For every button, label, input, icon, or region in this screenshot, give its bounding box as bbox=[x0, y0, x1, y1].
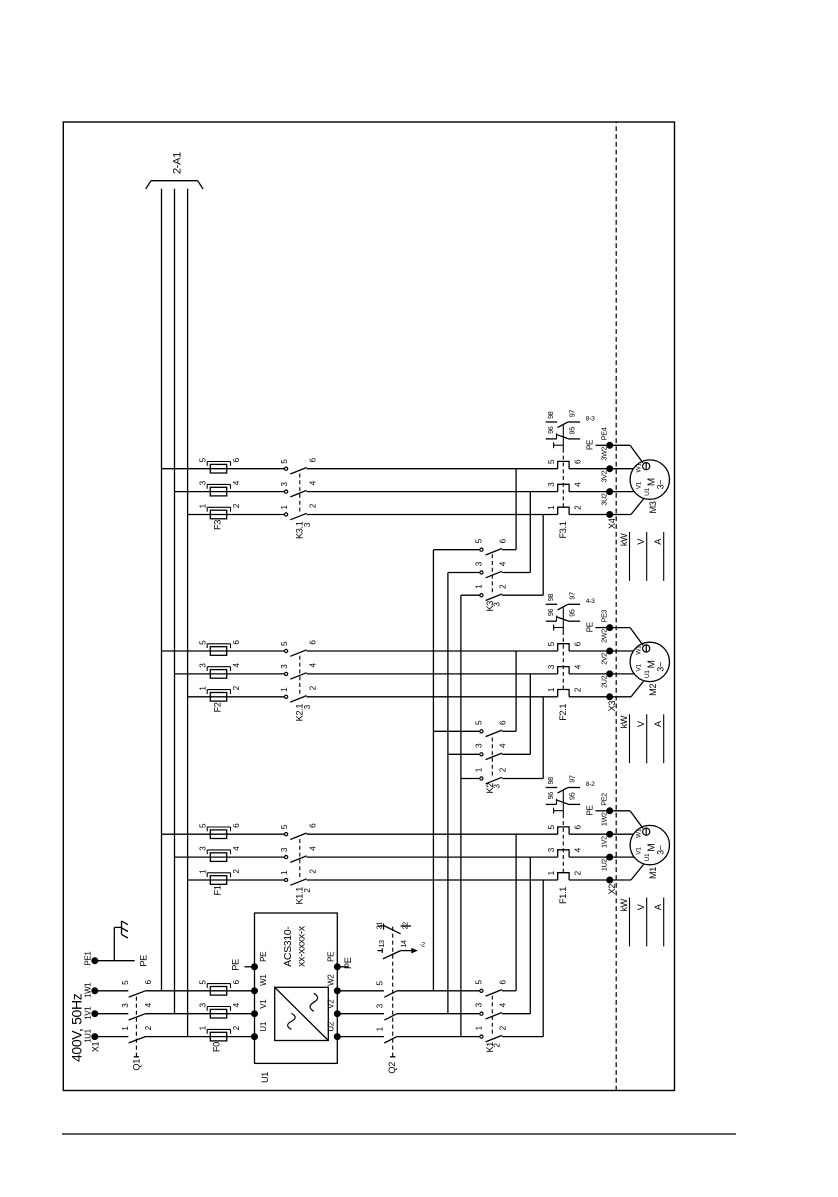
svg-text:-2: -2 bbox=[420, 942, 426, 949]
svg-text:5: 5 bbox=[475, 538, 484, 543]
svg-text:4: 4 bbox=[309, 480, 318, 485]
svg-text:6: 6 bbox=[498, 720, 507, 725]
svg-text:3~: 3~ bbox=[656, 662, 666, 672]
fuse F1 bbox=[210, 876, 226, 885]
drive input terminals bbox=[252, 1034, 258, 1040]
svg-text:97: 97 bbox=[568, 775, 577, 783]
svg-text:6: 6 bbox=[574, 825, 583, 830]
svg-text:3: 3 bbox=[475, 743, 484, 748]
svg-text:13: 13 bbox=[377, 940, 386, 948]
svg-text:22: 22 bbox=[400, 922, 409, 930]
nameplate M1 bbox=[629, 898, 631, 947]
svg-text:1: 1 bbox=[475, 1025, 484, 1030]
footer separator line bbox=[62, 1133, 736, 1135]
motor M1 PE terminal bbox=[643, 828, 650, 835]
svg-text:2: 2 bbox=[574, 505, 583, 510]
svg-text:1: 1 bbox=[475, 584, 484, 589]
drive output PE stub bbox=[337, 966, 348, 968]
svg-text:W1: W1 bbox=[635, 828, 642, 838]
svg-text:98: 98 bbox=[546, 594, 555, 602]
svg-text:5: 5 bbox=[376, 981, 385, 986]
distribution wire V bbox=[447, 573, 449, 1014]
svg-text:PE: PE bbox=[343, 957, 353, 969]
svg-text:4: 4 bbox=[144, 1002, 153, 1007]
svg-text:4: 4 bbox=[232, 1002, 241, 1007]
svg-text:PE2: PE2 bbox=[599, 793, 608, 806]
svg-text:M1: M1 bbox=[648, 867, 658, 879]
svg-text:2: 2 bbox=[574, 687, 583, 692]
svg-text:3: 3 bbox=[547, 482, 556, 487]
svg-text:3: 3 bbox=[199, 663, 208, 668]
F3.1 aux contact 95-96 bbox=[546, 438, 557, 440]
svg-text:6: 6 bbox=[309, 457, 318, 462]
svg-text:1V1: 1V1 bbox=[84, 1006, 93, 1020]
converter symbol bbox=[275, 987, 329, 1040]
motor M2 bbox=[630, 642, 669, 681]
F2.1 aux contact 97-98 bbox=[546, 603, 558, 605]
svg-text:2W2: 2W2 bbox=[599, 629, 608, 643]
svg-text:2: 2 bbox=[309, 503, 318, 508]
svg-text:4: 4 bbox=[498, 561, 507, 566]
PE1 earth wire bbox=[98, 960, 135, 962]
svg-text:V: V bbox=[636, 538, 646, 545]
svg-text:2: 2 bbox=[309, 685, 318, 690]
svg-text:Q2: Q2 bbox=[387, 1062, 397, 1074]
svg-text:8-3: 8-3 bbox=[586, 416, 595, 423]
svg-text:5: 5 bbox=[280, 824, 289, 829]
svg-text:3: 3 bbox=[199, 480, 208, 485]
svg-text:97: 97 bbox=[568, 410, 577, 418]
svg-text:4: 4 bbox=[498, 1002, 507, 1007]
svg-text:3: 3 bbox=[280, 482, 289, 487]
overload relay F2.1 bbox=[558, 690, 569, 697]
svg-text:6: 6 bbox=[574, 641, 583, 646]
svg-text:1W1: 1W1 bbox=[84, 982, 93, 998]
wire busbar taps to branch M1 bbox=[162, 833, 285, 835]
svg-text:1U2: 1U2 bbox=[599, 859, 608, 871]
drive input PE stub bbox=[245, 966, 255, 968]
svg-text:2: 2 bbox=[232, 1025, 241, 1030]
svg-text:98: 98 bbox=[546, 411, 555, 419]
svg-text:14: 14 bbox=[399, 940, 408, 948]
svg-text:kW: kW bbox=[619, 898, 629, 911]
svg-text:V: V bbox=[636, 903, 646, 910]
svg-text:PE: PE bbox=[586, 806, 595, 816]
svg-text:PE3: PE3 bbox=[599, 610, 608, 623]
svg-text:F2: F2 bbox=[213, 702, 223, 712]
svg-text:1: 1 bbox=[280, 687, 289, 692]
svg-text:1: 1 bbox=[547, 870, 556, 875]
svg-text:xx-xxxx-x: xx-xxxx-x bbox=[296, 925, 308, 967]
svg-text:V1: V1 bbox=[259, 999, 268, 1009]
drive U1 ACS310 box bbox=[255, 913, 338, 1063]
svg-text:PE: PE bbox=[586, 622, 595, 632]
svg-text:1: 1 bbox=[199, 869, 208, 874]
svg-text:3: 3 bbox=[280, 664, 289, 669]
svg-text:4-3: 4-3 bbox=[586, 598, 595, 605]
svg-text:1U1: 1U1 bbox=[84, 1028, 93, 1043]
ground symbol bbox=[113, 927, 115, 960]
svg-text:5: 5 bbox=[547, 459, 556, 464]
svg-text:4: 4 bbox=[309, 663, 318, 668]
svg-text:W1: W1 bbox=[635, 463, 642, 473]
svg-text:M3: M3 bbox=[648, 501, 658, 513]
svg-text:PE4: PE4 bbox=[599, 427, 608, 440]
svg-text:V1: V1 bbox=[636, 664, 643, 672]
svg-text:3V2: 3V2 bbox=[599, 470, 608, 482]
svg-text:U1: U1 bbox=[644, 487, 651, 495]
F3.1 actuator bbox=[562, 453, 564, 508]
F1.1 aux contact 97-98 bbox=[546, 787, 558, 789]
svg-text:ACS310-: ACS310- bbox=[282, 926, 294, 967]
svg-text:98: 98 bbox=[546, 777, 555, 785]
arrow to sheet 2 bbox=[401, 950, 412, 952]
svg-text:5: 5 bbox=[199, 458, 208, 463]
drive output terminals bbox=[334, 1034, 340, 1040]
breaker Q1 bbox=[129, 1037, 146, 1043]
wire drop to K2 bbox=[461, 778, 480, 780]
wire drive output to Q2 bbox=[337, 1036, 384, 1038]
wire Q1 to drive input bbox=[145, 1036, 254, 1038]
svg-text:6: 6 bbox=[309, 640, 318, 645]
F2.1 actuator bbox=[562, 635, 564, 690]
svg-text:2: 2 bbox=[498, 1025, 507, 1030]
svg-text:6: 6 bbox=[574, 459, 583, 464]
svg-text:3: 3 bbox=[280, 847, 289, 852]
svg-text:3: 3 bbox=[547, 847, 556, 852]
wire K3.1 to overload bbox=[307, 514, 558, 516]
drawing frame border bbox=[63, 122, 674, 1091]
svg-text:3: 3 bbox=[475, 1002, 484, 1007]
PE wire to motor M3 bbox=[612, 444, 630, 446]
svg-text:5: 5 bbox=[199, 980, 208, 985]
svg-text:3: 3 bbox=[376, 1003, 385, 1008]
svg-text:6: 6 bbox=[232, 640, 241, 645]
svg-text:4: 4 bbox=[232, 480, 241, 485]
terminal X4 bbox=[607, 512, 613, 518]
wire busbar taps to branch M2 bbox=[162, 650, 285, 652]
svg-text:X2: X2 bbox=[607, 884, 617, 895]
svg-text:21: 21 bbox=[375, 922, 384, 930]
busbar L3 wire bbox=[187, 189, 189, 1037]
svg-text:2U2: 2U2 bbox=[599, 675, 608, 687]
contactor K3 bbox=[480, 594, 483, 597]
svg-text:400V, 50Hz: 400V, 50Hz bbox=[69, 993, 85, 1062]
svg-text:96: 96 bbox=[546, 609, 555, 617]
svg-text:4: 4 bbox=[232, 663, 241, 668]
svg-text:1: 1 bbox=[121, 1026, 130, 1031]
svg-text:W1: W1 bbox=[259, 974, 268, 986]
distribution wire W bbox=[432, 550, 434, 991]
svg-text:F3: F3 bbox=[213, 520, 223, 530]
motor M3 bbox=[630, 460, 669, 499]
svg-text:V1: V1 bbox=[636, 847, 643, 855]
cabinet boundary dashed line bbox=[615, 122, 617, 1091]
fuse F2 bbox=[210, 693, 226, 702]
svg-text:6: 6 bbox=[232, 457, 241, 462]
svg-text:2: 2 bbox=[574, 870, 583, 875]
svg-text:2-A1: 2-A1 bbox=[171, 152, 183, 174]
wire drop to K3 bbox=[461, 594, 480, 596]
svg-text:2: 2 bbox=[309, 869, 318, 874]
fuse F3 bbox=[210, 510, 226, 519]
svg-text:1: 1 bbox=[280, 870, 289, 875]
contactor K3.1 bbox=[285, 513, 288, 516]
svg-text:5: 5 bbox=[475, 980, 484, 985]
svg-text:W1: W1 bbox=[635, 645, 642, 655]
svg-text:kW: kW bbox=[619, 533, 629, 546]
svg-text:2: 2 bbox=[232, 685, 241, 690]
svg-text:5: 5 bbox=[547, 825, 556, 830]
svg-text:U1: U1 bbox=[259, 1021, 268, 1031]
svg-text:4: 4 bbox=[309, 846, 318, 851]
svg-text:PE: PE bbox=[327, 952, 336, 962]
svg-text:F1: F1 bbox=[213, 885, 223, 895]
svg-text:A: A bbox=[653, 903, 663, 910]
svg-text:4: 4 bbox=[498, 743, 507, 748]
svg-text:PE: PE bbox=[231, 959, 241, 971]
svg-text:5: 5 bbox=[547, 641, 556, 646]
svg-text:1: 1 bbox=[547, 687, 556, 692]
motor M3 PE terminal bbox=[643, 463, 650, 470]
wire busbar taps to branch M3 bbox=[162, 468, 285, 470]
svg-text:1: 1 bbox=[199, 686, 208, 691]
svg-text:3: 3 bbox=[475, 561, 484, 566]
fuse F0 bbox=[210, 1032, 226, 1041]
cable continuation marker 2-A1 bbox=[151, 180, 198, 182]
contactor K2.1 bbox=[285, 695, 288, 698]
svg-text:A: A bbox=[653, 720, 663, 727]
svg-text:97: 97 bbox=[568, 592, 577, 600]
svg-text:6: 6 bbox=[498, 538, 507, 543]
wire K1.1 to overload bbox=[307, 879, 558, 881]
svg-text:PE1: PE1 bbox=[84, 951, 93, 966]
svg-text:95: 95 bbox=[568, 609, 577, 617]
wire X3 to motor bbox=[612, 696, 631, 698]
svg-text:96: 96 bbox=[546, 792, 555, 800]
Q2 aux contact 21-22 bbox=[378, 925, 384, 927]
contactor K1 bbox=[480, 1035, 483, 1038]
contactor K1.1 bbox=[285, 878, 288, 881]
svg-text:96: 96 bbox=[546, 426, 555, 434]
F3.1 aux contact 97-98 bbox=[546, 421, 558, 423]
svg-text:1: 1 bbox=[376, 1026, 385, 1031]
svg-text:M2: M2 bbox=[648, 683, 658, 695]
svg-text:5: 5 bbox=[280, 641, 289, 646]
svg-text:kW: kW bbox=[619, 715, 629, 728]
svg-text:3: 3 bbox=[547, 664, 556, 669]
svg-text:V: V bbox=[636, 720, 646, 727]
svg-text:X4: X4 bbox=[607, 518, 617, 529]
svg-text:2V2: 2V2 bbox=[599, 653, 608, 665]
svg-text:F1.1: F1.1 bbox=[558, 887, 568, 904]
wire X4 to motor bbox=[612, 514, 631, 516]
wire K2.1 to overload bbox=[307, 696, 558, 698]
svg-text:Q1: Q1 bbox=[132, 1059, 142, 1071]
svg-text:8-2: 8-2 bbox=[586, 781, 595, 788]
F1.1 aux contact 95-96 bbox=[546, 803, 557, 805]
svg-text:4: 4 bbox=[232, 846, 241, 851]
svg-text:5: 5 bbox=[199, 823, 208, 828]
svg-text:5: 5 bbox=[280, 459, 289, 464]
svg-text:PE: PE bbox=[586, 440, 595, 450]
svg-text:4: 4 bbox=[574, 847, 583, 852]
svg-text:95: 95 bbox=[568, 427, 577, 435]
svg-text:95: 95 bbox=[568, 792, 577, 800]
svg-text:4: 4 bbox=[574, 482, 583, 487]
svg-text:PE: PE bbox=[139, 955, 149, 967]
svg-text:U1: U1 bbox=[260, 1072, 270, 1083]
motor M1 bbox=[630, 825, 669, 864]
svg-text:W2: W2 bbox=[327, 974, 336, 986]
svg-text:6: 6 bbox=[144, 979, 153, 984]
svg-text:3~: 3~ bbox=[656, 480, 666, 490]
Q2 aux contact 13-14 bbox=[378, 950, 383, 952]
switch Q2 bbox=[384, 1037, 397, 1043]
svg-text:V1: V1 bbox=[636, 481, 643, 489]
busbar L2 wire bbox=[174, 189, 176, 1014]
F2.1 aux contact 95-96 bbox=[546, 620, 557, 622]
PE wire to motor M2 bbox=[612, 627, 630, 629]
svg-text:2: 2 bbox=[498, 767, 507, 772]
overload relay F1.1 bbox=[558, 873, 569, 880]
K1 actuator dashed line bbox=[491, 994, 493, 1034]
svg-text:2: 2 bbox=[144, 1025, 153, 1030]
svg-text:6: 6 bbox=[498, 980, 507, 985]
svg-text:2: 2 bbox=[232, 503, 241, 508]
svg-text:U2: U2 bbox=[327, 1021, 336, 1031]
svg-text:U1: U1 bbox=[644, 670, 651, 678]
svg-text:3: 3 bbox=[199, 1003, 208, 1008]
svg-text:3W2: 3W2 bbox=[599, 446, 608, 460]
PE wire to motor M1 bbox=[612, 810, 630, 812]
svg-text:1: 1 bbox=[547, 505, 556, 510]
svg-text:F2.1: F2.1 bbox=[558, 704, 568, 721]
nameplate M2 bbox=[629, 714, 631, 763]
wire Q2 to K1 bbox=[397, 1036, 480, 1038]
svg-text:2: 2 bbox=[498, 584, 507, 589]
svg-text:1: 1 bbox=[280, 505, 289, 510]
svg-text:A: A bbox=[653, 538, 663, 545]
distribution wire U bbox=[460, 595, 462, 1036]
nameplate M3 bbox=[629, 532, 631, 581]
K2 actuator dashed line bbox=[491, 734, 493, 775]
wire X2 to motor bbox=[612, 879, 631, 881]
wire X1 to Q1 bbox=[98, 1036, 129, 1038]
svg-text:1: 1 bbox=[475, 767, 484, 772]
busbar L1 wire bbox=[161, 189, 163, 991]
terminal X3 bbox=[607, 694, 613, 700]
svg-text:3~: 3~ bbox=[656, 845, 666, 855]
terminal X1 bbox=[92, 1034, 98, 1040]
K3 actuator dashed line bbox=[491, 553, 493, 593]
terminal X2 bbox=[607, 877, 613, 883]
svg-text:1V2: 1V2 bbox=[599, 836, 608, 848]
svg-text:F3.1: F3.1 bbox=[558, 521, 568, 538]
svg-text:U1: U1 bbox=[644, 853, 651, 861]
svg-text:2: 2 bbox=[232, 869, 241, 874]
svg-text:1: 1 bbox=[199, 503, 208, 508]
svg-text:4: 4 bbox=[574, 664, 583, 669]
svg-text:1W2: 1W2 bbox=[599, 812, 608, 826]
svg-text:5: 5 bbox=[121, 980, 130, 985]
svg-text:1: 1 bbox=[199, 1025, 208, 1030]
svg-text:F0: F0 bbox=[211, 1042, 221, 1052]
svg-text:5: 5 bbox=[475, 720, 484, 725]
svg-text:X3: X3 bbox=[607, 701, 617, 712]
svg-text:5: 5 bbox=[199, 640, 208, 645]
F1.1 actuator bbox=[562, 818, 564, 873]
motor M2 PE terminal bbox=[643, 645, 650, 652]
svg-text:6: 6 bbox=[232, 979, 241, 984]
svg-text:6: 6 bbox=[309, 823, 318, 828]
svg-text:V2: V2 bbox=[327, 999, 336, 1009]
svg-text:3U2: 3U2 bbox=[599, 493, 608, 505]
svg-text:3: 3 bbox=[199, 846, 208, 851]
contactor K2 bbox=[480, 777, 483, 780]
svg-text:6: 6 bbox=[232, 823, 241, 828]
svg-text:PE: PE bbox=[259, 952, 268, 962]
svg-text:3: 3 bbox=[121, 1003, 130, 1008]
overload relay F3.1 bbox=[558, 507, 569, 514]
